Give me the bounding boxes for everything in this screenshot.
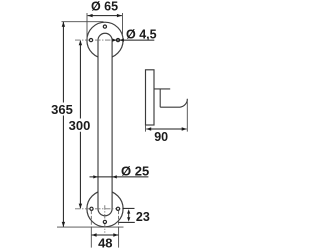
- svg-text:90: 90: [154, 130, 168, 144]
- centerline bottom flange (horizontal): [75, 208, 123, 210]
- svg-text:300: 300: [69, 118, 91, 133]
- svg-text:Ø 4,5: Ø 4,5: [126, 27, 157, 41]
- svg-text:Ø 25: Ø 25: [121, 163, 149, 178]
- dimension 90 line: [146, 128, 186, 130]
- screw hole H2 top flange left: [89, 39, 92, 42]
- dimension D4.5 arrow pointing left: [120, 38, 124, 41]
- dimension D25 leader line: [90, 176, 149, 178]
- side view wall plate: [146, 70, 155, 125]
- screw hole H5 bottom flange right: [116, 207, 119, 210]
- dimension D4.5 arrow pointing right: [112, 38, 116, 41]
- dimension 300 arrow down: [79, 204, 82, 209]
- tube (grab bar, covers flange arcs): [98, 33, 112, 216]
- dimension D25 arrow pointing left: [112, 175, 117, 178]
- dimension 48 extension line left: [90, 211, 92, 227]
- screw hole H1 top flange top: [103, 25, 106, 28]
- dimension D65 arrow right: [117, 14, 122, 17]
- dimension D4.5 leader line: [113, 39, 155, 41]
- dimension 365 arrow up: [62, 22, 65, 27]
- centerline top flange (horizontal): [75, 39, 123, 41]
- dimension 365 line: [62, 22, 64, 227]
- dimension 23 double arrow: [128, 212, 130, 220]
- dimension 23 tick bottom: [118, 221, 135, 223]
- dimension 23 tick top: [123, 207, 135, 209]
- centerline bottom flange (vertical): [104, 205, 106, 232]
- side view bracket top line: [154, 88, 170, 90]
- dimension D25 arrow pointing right: [93, 175, 98, 178]
- dimension 90 arrow left: [146, 127, 151, 130]
- dimension 300 line: [79, 41, 81, 209]
- dimension 90 arrow right: [182, 127, 187, 130]
- svg-text:48: 48: [98, 236, 112, 250]
- side view bracket vertical line: [159, 89, 161, 107]
- svg-text:Ø 65: Ø 65: [91, 0, 118, 14]
- top flange F1 (wall disc): [87, 22, 123, 58]
- svg-text:365: 365: [51, 102, 73, 117]
- dimension 48 extension line right: [118, 211, 120, 227]
- screw hole H3 top flange right: [116, 39, 119, 42]
- dimension 48 line: [92, 234, 119, 236]
- dimension 365 arrow down: [62, 222, 65, 227]
- screw hole H6 bottom flange bottom: [103, 220, 106, 223]
- dimension 300 arrow up: [79, 40, 82, 45]
- dimension 48 arrow left: [92, 233, 97, 236]
- dimension D65 extension line left: [86, 13, 88, 40]
- svg-text:23: 23: [136, 210, 150, 224]
- dimension 365 extension line top: [62, 21, 104, 23]
- dimension D65 arrow left: [88, 14, 93, 17]
- dimension D65 extension line right: [122, 13, 124, 35]
- screw hole H4 bottom flange left: [90, 207, 93, 210]
- dimension D65 line: [88, 15, 122, 17]
- dimension 365 extension line bottom: [57, 226, 124, 228]
- dimension 90 extension line left (plate edge continuation): [145, 125, 147, 132]
- side view bracket bottom line with upswept curve: [160, 99, 187, 107]
- dimension 90 extension line right: [186, 99, 188, 132]
- bottom flange F2 (wall disc): [87, 191, 123, 227]
- dimension 48 arrow right: [113, 233, 118, 236]
